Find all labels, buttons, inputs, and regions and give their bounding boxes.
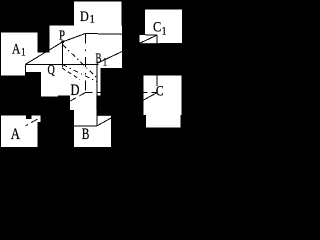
white mask: B box left part <box>74 110 97 147</box>
wire: edge CC1 vertical <box>156 35 158 86</box>
point marker P <box>61 40 64 43</box>
svg-text:1: 1 <box>90 11 96 25</box>
svg-text:D: D <box>71 82 80 99</box>
white mask: label box C1 <box>145 10 182 44</box>
wire: hidden edge D1D dash-dot vertical <box>85 34 87 93</box>
wire: edge AA1 vertical stub <box>24 64 26 75</box>
wire: dash-dot ray from Q <box>63 65 97 82</box>
white mask: label box C <box>144 76 182 116</box>
svg-text:A: A <box>12 42 20 58</box>
white mask: band left of central at A1 corner <box>38 53 50 73</box>
svg-text:Q: Q <box>48 63 55 78</box>
svg-text:A: A <box>11 126 21 143</box>
svg-text:P: P <box>59 29 65 44</box>
wire: edge A1D1 through point P <box>25 34 85 65</box>
wire: edge B1C1 diagonal <box>97 35 157 63</box>
svg-text:D: D <box>80 9 89 25</box>
svg-text:C: C <box>153 19 161 35</box>
wire: segment PQ vertical <box>62 42 64 67</box>
svg-text:C: C <box>156 83 164 99</box>
white mask: label box A1 <box>1 33 38 73</box>
svg-text:1: 1 <box>21 44 26 58</box>
white mask: band B1C1 arriving at C1 <box>140 34 160 43</box>
wire: hidden edge DA dashed <box>25 93 85 126</box>
wire: edge AB bottom horizontal <box>60 125 97 127</box>
white mask: A1 box lower-left extension <box>1 72 26 76</box>
wire: second dashed ray below Q <box>62 68 80 80</box>
white mask: black notch at A box top-right <box>26 116 32 120</box>
svg-text:1: 1 <box>162 23 167 37</box>
svg-text:B: B <box>82 126 90 143</box>
wire: edge A1B1 horizontal <box>25 63 98 65</box>
white mask: central big region <box>50 26 123 69</box>
svg-text:1: 1 <box>103 55 107 69</box>
white mask: label box D1 <box>74 2 122 32</box>
wire: edge BC diagonal <box>97 93 157 126</box>
white mask: label box A <box>1 116 38 148</box>
white mask: box bottom-right <box>146 115 181 128</box>
white mask: D-area column down <box>70 95 96 110</box>
wire: edge D1C1 near-horizontal <box>86 34 158 36</box>
wire: edge BB1 vertical <box>96 63 98 126</box>
white mask: Q and lower-left central <box>41 62 58 97</box>
white mask: B box right part <box>97 116 111 147</box>
wire: dash-dot ray from P <box>63 45 97 78</box>
svg-text:B: B <box>96 52 102 67</box>
white mask: DA dash band at A box top-right <box>32 116 41 123</box>
white mask: lower central region <box>58 68 101 96</box>
wire: hidden edge DC dashed <box>86 92 158 94</box>
